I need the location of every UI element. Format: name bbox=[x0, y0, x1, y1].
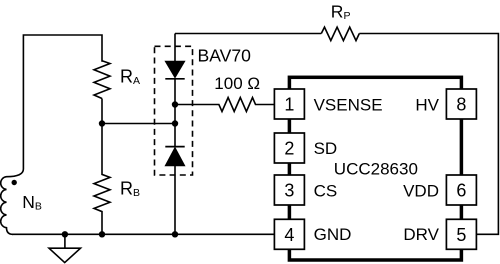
pin 4 box bbox=[274, 219, 304, 249]
op-amp U1 UCC28630 body bbox=[289, 77, 461, 260]
svg-text:8: 8 bbox=[456, 95, 466, 115]
node: 100ohm tap on BAV70 common cathode bbox=[172, 101, 178, 107]
svg-text:6: 6 bbox=[456, 181, 466, 201]
pin 6 box bbox=[446, 175, 476, 205]
svg-text:UCC28630: UCC28630 bbox=[334, 160, 418, 179]
svg-text:SD: SD bbox=[314, 139, 338, 158]
svg-text:BAV70: BAV70 bbox=[198, 46, 252, 66]
node: divider tap on BAV70 line bbox=[172, 120, 178, 126]
diode D1 (top, anode up) bbox=[165, 61, 184, 77]
wire: bottom ground rail bbox=[12, 233, 274, 235]
dashed box BAV70 bbox=[155, 46, 193, 175]
svg-text:VSENSE: VSENSE bbox=[314, 96, 383, 115]
node: BAV70 bottom on ground rail bbox=[172, 231, 178, 237]
NB phase dot bbox=[12, 180, 17, 185]
pin 1 box bbox=[274, 89, 304, 119]
svg-text:1: 1 bbox=[284, 95, 294, 115]
wire: top RP net bbox=[175, 34, 498, 235]
wire: divider to BAV70 common cathode bbox=[102, 123, 175, 125]
node: ground tap junction bbox=[62, 231, 68, 237]
node: RB bottom on ground rail bbox=[99, 231, 105, 237]
inductor NB winding bbox=[1, 169, 24, 234]
wire: ground stub bbox=[64, 234, 66, 248]
wire: BAV70 center vertical bbox=[174, 34, 176, 235]
resistor 100ohm with leads bbox=[175, 98, 274, 112]
wire: top-left loop horizontal and left vertical bbox=[23, 35, 102, 169]
resistor RP bbox=[321, 27, 359, 40]
svg-text:CS: CS bbox=[314, 182, 338, 201]
svg-text:VDD: VDD bbox=[403, 182, 439, 201]
pin 5 box bbox=[446, 219, 476, 249]
svg-text:GND: GND bbox=[314, 225, 352, 244]
wire: RA bottom lead to divider node bbox=[101, 99, 103, 124]
node: RA/RB divider junction bbox=[99, 120, 105, 126]
diode D2 (bottom, cathode up) bbox=[165, 146, 184, 148]
svg-text:100 Ω: 100 Ω bbox=[214, 74, 260, 93]
svg-text:4: 4 bbox=[284, 225, 294, 245]
svg-text:2: 2 bbox=[284, 139, 294, 159]
svg-text:5: 5 bbox=[456, 225, 466, 245]
pin 3 box bbox=[274, 175, 304, 205]
resistor RB bbox=[94, 124, 110, 235]
pin 8 box bbox=[446, 89, 476, 119]
svg-text:DRV: DRV bbox=[403, 225, 439, 244]
resistor RA bbox=[94, 61, 110, 99]
svg-text:3: 3 bbox=[284, 181, 294, 201]
svg-text:HV: HV bbox=[415, 96, 439, 115]
ground bbox=[49, 248, 81, 262]
pin 2 box bbox=[274, 133, 304, 163]
